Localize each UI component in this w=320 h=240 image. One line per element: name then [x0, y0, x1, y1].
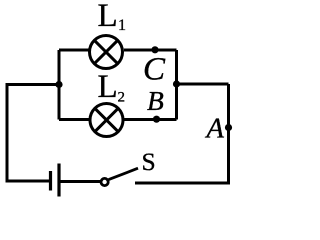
lamp L1: [90, 36, 123, 69]
wire right outer vertical: [227, 84, 230, 183]
svg-text:B: B: [147, 85, 164, 116]
wire battery to switch: [59, 180, 101, 183]
wire right connector horizontal: [177, 83, 229, 86]
node A: [225, 124, 232, 131]
svg-text:1: 1: [118, 17, 126, 34]
svg-text:L: L: [98, 0, 118, 34]
junction right node: [173, 80, 180, 87]
wire right inner vertical: [175, 50, 178, 120]
wire left outer vertical: [6, 85, 9, 183]
wire bottom branch right: [124, 118, 177, 121]
svg-text:A: A: [205, 114, 225, 145]
wire top branch left: [59, 49, 89, 52]
node B: [153, 116, 160, 123]
wire bottom right horizontal: [135, 182, 230, 185]
svg-text:S: S: [142, 147, 156, 176]
wire bottom left horizontal: [6, 180, 51, 183]
switch S: [101, 168, 138, 185]
svg-text:C: C: [143, 52, 166, 88]
label L2: [98, 69, 126, 106]
wire bottom branch left: [59, 118, 90, 121]
label L1: [98, 0, 127, 34]
lamp L2: [90, 104, 123, 137]
junction left node: [55, 81, 62, 88]
svg-text:L: L: [98, 69, 118, 105]
svg-text:2: 2: [118, 90, 126, 106]
wire top branch right: [124, 49, 177, 52]
node C: [151, 46, 158, 53]
wire left inner vertical: [58, 50, 61, 120]
battery cell: [51, 164, 60, 197]
wire left connector horizontal: [6, 83, 60, 86]
